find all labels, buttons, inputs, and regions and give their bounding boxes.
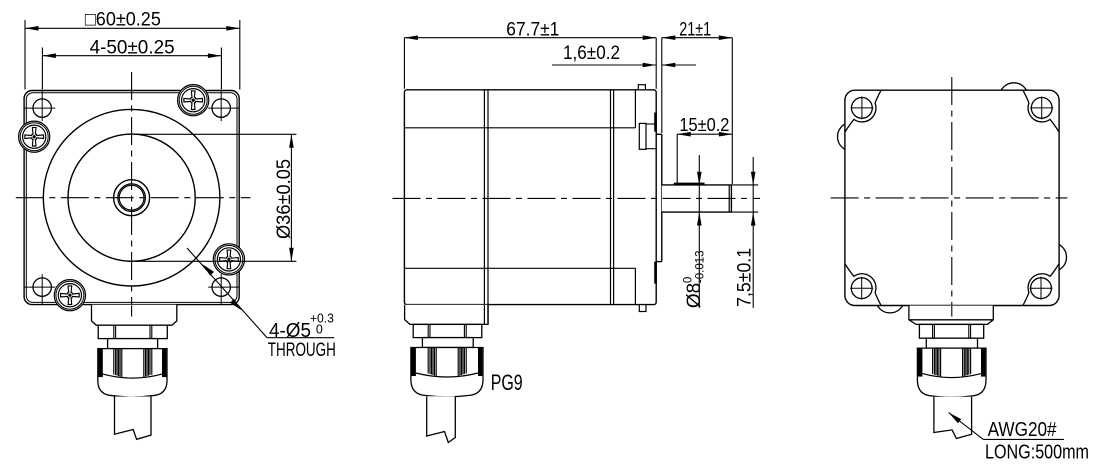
- svg-text:7,5±0.1: 7,5±0.1: [735, 248, 756, 307]
- svg-text:0: 0: [683, 277, 695, 283]
- svg-text:15±0.2: 15±0.2: [679, 114, 729, 135]
- svg-text:Ø36±0.05: Ø36±0.05: [274, 159, 295, 239]
- svg-text:AWG20#: AWG20#: [988, 419, 1058, 441]
- svg-text:1,6±0.2: 1,6±0.2: [563, 43, 620, 64]
- svg-text:PG9: PG9: [491, 370, 523, 395]
- svg-text:THROUGH: THROUGH: [268, 339, 336, 361]
- svg-text:0: 0: [316, 323, 323, 337]
- svg-text:□60±0.25: □60±0.25: [85, 9, 161, 30]
- svg-text:LONG:500mm: LONG:500mm: [985, 442, 1089, 464]
- svg-text:-0.013: -0.013: [695, 250, 707, 283]
- svg-text:21±1: 21±1: [679, 19, 711, 40]
- svg-text:4-50±0.25: 4-50±0.25: [90, 37, 175, 58]
- svg-text:67.7±1: 67.7±1: [506, 19, 559, 40]
- svg-text:Ø8: Ø8: [684, 283, 705, 308]
